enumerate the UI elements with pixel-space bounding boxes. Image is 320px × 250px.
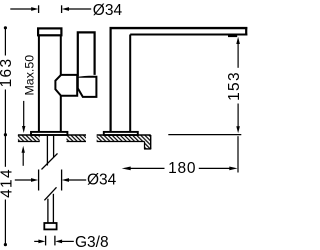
deck segment A bottom line	[18, 141, 40, 143]
supply pipe upper segment left wall	[46, 136, 48, 166]
dim 180 left line	[130, 167, 165, 169]
spout arm right end cap	[245, 27, 247, 36]
deck segment C top line	[97, 134, 151, 136]
dim lower Ø34 right arrowhead	[62, 178, 69, 182]
deck segment A hatch	[18, 135, 40, 142]
G3/8 connector block	[44, 223, 56, 229]
dim lower Ø34 right tick	[61, 170, 63, 191]
svg-text:Max.50: Max.50	[23, 55, 37, 96]
dim left top dot	[4, 26, 7, 29]
deck edge block hatch	[145, 142, 151, 150]
dim 153 upper arrowhead	[236, 37, 240, 44]
lever base block	[78, 77, 97, 97]
dim G3/8 left arrow line	[34, 240, 40, 242]
deck segment C hatch	[97, 135, 151, 142]
dim left mid segment	[4, 90, 6, 167]
deck segment B top line	[67, 134, 87, 136]
spout column left wall	[109, 27, 111, 132]
mixer body cap	[38, 28, 61, 35]
dim top Ø34 left tick	[38, 5, 40, 13]
dim G3/8 left tick	[45, 236, 47, 246]
dim G3/8 left arrowhead	[38, 240, 45, 244]
dim 153 upper line	[237, 44, 239, 68]
svg-text:180: 180	[168, 160, 196, 177]
deck segment B bottom line	[67, 141, 87, 143]
dim top Ø34 left arrow line	[10, 8, 32, 10]
pipe break slash lower	[44, 187, 56, 200]
deck segment C bottom line	[97, 141, 145, 143]
spout arm top line	[110, 27, 248, 29]
dim 180 right line	[199, 167, 231, 169]
supply pipe upper segment right wall	[53, 136, 55, 157]
deck segment A top line	[18, 134, 40, 136]
dim lower Ø34 left arrow line	[15, 179, 32, 181]
dim Max.50 down line	[23, 101, 25, 127]
lever stick	[78, 32, 95, 76]
dim top Ø34 right tick	[61, 5, 63, 13]
svg-text:163: 163	[0, 58, 15, 88]
deck level extension line right	[168, 134, 241, 136]
dim left deck dot	[4, 133, 7, 136]
right vertical extension line	[237, 136, 239, 172]
dim left bottom dot	[4, 243, 7, 246]
svg-text:Ø34: Ø34	[87, 172, 117, 189]
supply pipe lower segment left wall	[47, 199, 49, 223]
dim G3/8 right tick	[54, 236, 56, 246]
spout arm bottom line	[130, 34, 247, 36]
deck edge block bottom line	[144, 148, 151, 150]
pipe break slash upper	[42, 153, 58, 169]
aerator tip	[228, 35, 237, 38]
dim 180 right arrowhead	[229, 167, 237, 171]
svg-text:Ø34: Ø34	[93, 2, 123, 19]
deck segment B hatch	[67, 135, 87, 142]
dim lower Ø34 right arrow line	[69, 179, 87, 181]
dim top Ø34 left arrowhead	[31, 7, 38, 11]
dim top Ø34 right arrow line	[69, 8, 92, 10]
svg-text:414: 414	[0, 168, 16, 198]
lever hub hexagon	[55, 75, 77, 96]
deck edge block right line	[150, 135, 152, 149]
svg-text:G3/8: G3/8	[75, 234, 109, 250]
svg-text:153: 153	[226, 71, 243, 101]
mixer body right side wall lower	[60, 96, 62, 132]
dim G3/8 right arrow line	[62, 240, 74, 242]
dim Max.50 up arrowhead	[22, 146, 25, 153]
spout base flange	[104, 132, 138, 135]
dim left lower segment	[4, 200, 6, 245]
deck edge block left line	[144, 142, 146, 150]
dim 153 lower arrowhead	[236, 126, 240, 133]
dim left line upper segment	[4, 28, 6, 56]
mixer base flange	[31, 132, 67, 135]
dim 153 lower line	[237, 104, 239, 128]
dim Max.50 up line	[22, 153, 24, 166]
supply pipe lower segment right wall	[52, 194, 54, 223]
dim 180 left arrowhead	[122, 167, 131, 171]
dim top Ø34 right arrowhead	[62, 7, 69, 11]
dim lower Ø34 left tick	[38, 170, 40, 191]
dim G3/8 right arrowhead	[55, 240, 62, 244]
dim Max.50 down arrowhead	[22, 126, 25, 133]
mixer body left side wall	[38, 35, 40, 132]
spout column right wall	[129, 35, 131, 132]
mixer body right side wall upper	[60, 35, 62, 75]
dim lower Ø34 left arrowhead	[31, 178, 38, 182]
